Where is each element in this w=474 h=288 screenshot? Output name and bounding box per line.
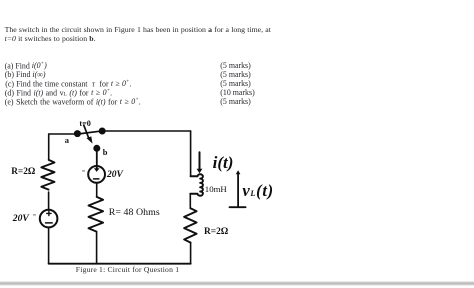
wire middle branch lower vertical (96, 232, 98, 264)
wire middle branch from b (96, 151, 98, 168)
label R= 48 Ohms (109, 208, 160, 218)
wire middle branch between source and resistor (96, 183, 98, 197)
label a (65, 136, 69, 145)
vL(t) marker bottom bar (230, 206, 246, 208)
current arrow i(t) (199, 152, 201, 169)
wire left branch lower vertical (48, 227, 50, 263)
minus sign in middle source (94, 178, 99, 180)
label t=0 (79, 120, 91, 128)
vL(t) marker top cap (236, 170, 241, 174)
label 10mH (205, 185, 227, 194)
resistor R=2ohm right zigzag (184, 209, 197, 243)
voltage source 20V middle (88, 166, 105, 183)
switch throw arrowhead (87, 136, 93, 143)
inductor 10mH coil (190, 174, 203, 195)
vL(t) polarity marker line (237, 173, 239, 206)
wire bottom horizontal (49, 263, 191, 265)
minus sign in left source (46, 222, 53, 224)
switch contact dot b (93, 145, 100, 152)
switch throw arrow (84, 125, 89, 138)
wire top right horizontal (102, 130, 190, 132)
label b (103, 148, 108, 157)
switch arm a to top contact (78, 131, 100, 134)
current arrowhead (197, 169, 203, 174)
problem statement paragraph (5, 25, 271, 44)
arrowhead inside middle source (94, 168, 100, 172)
switch contact dot a (74, 130, 81, 137)
figure caption (76, 266, 179, 274)
bottom gray band (0, 281, 474, 286)
label 20V middle (107, 171, 123, 181)
voltage source 20V left (40, 210, 58, 228)
label R=2ohm left (11, 168, 35, 177)
wire right branch between inductor and resistor (189, 194, 191, 209)
question list (5, 62, 47, 71)
resistor R=48 zigzag (89, 197, 104, 232)
wire right branch lower vertical (190, 243, 192, 264)
switch contact dot top (99, 128, 106, 135)
wire left branch upper vertical (48, 134, 50, 160)
label i(t) (213, 154, 234, 171)
label 20V left (13, 214, 29, 224)
wire right branch upper vertical (190, 131, 192, 176)
wire left branch middle vertical (48, 192, 50, 210)
equals mark left source (33, 213, 37, 219)
resistor R=2ohm left zigzag (41, 160, 54, 190)
wire top-left horizontal (49, 133, 74, 135)
plus sign in left source (47, 211, 51, 215)
equals mark middle source (82, 169, 86, 175)
label R=2ohm right (204, 228, 228, 237)
label vL(t) (242, 183, 273, 200)
